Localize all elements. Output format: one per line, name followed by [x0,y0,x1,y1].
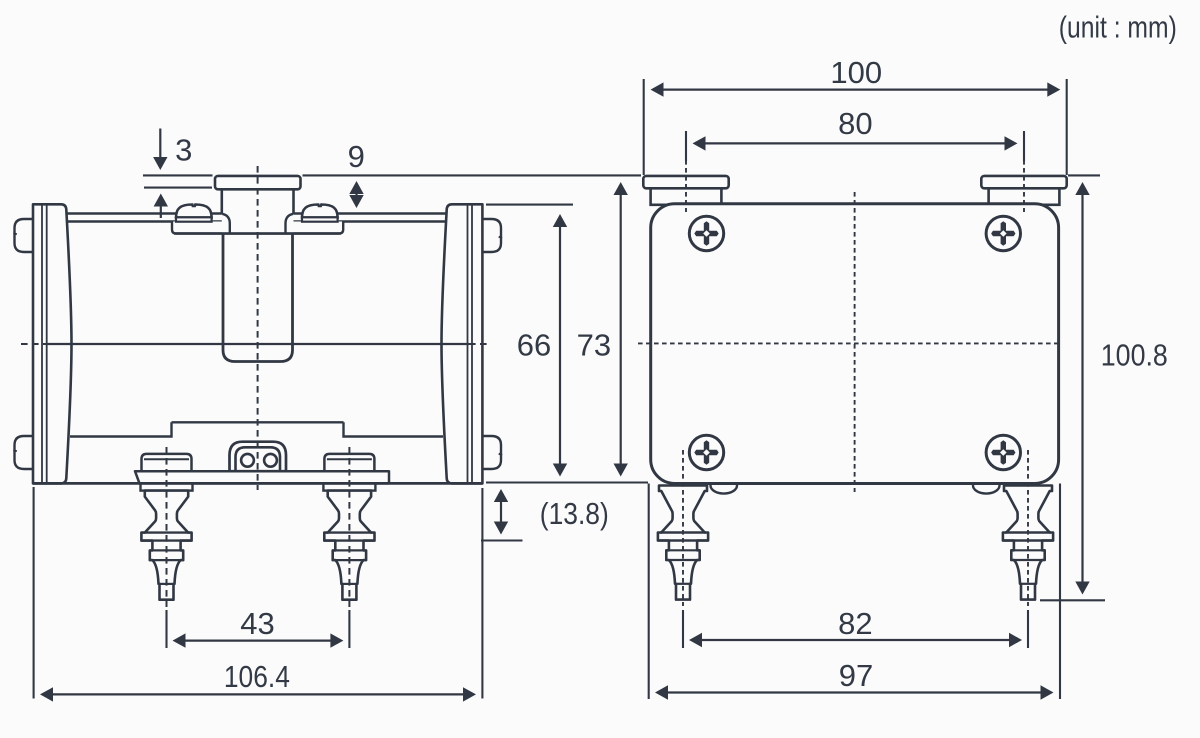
dim 100.8 line [1081,191,1083,584]
svg-text:43: 43 [240,606,274,641]
dim 106.4 witness right [481,488,483,699]
svg-text:66: 66 [517,327,551,362]
svg-text:82: 82 [838,606,872,641]
case screw bottom-right [986,435,1020,469]
deck top line [66,212,447,215]
case screw bottom-left [689,435,723,469]
left port flange (right view) [643,176,728,188]
dim 100 witness left [643,79,645,175]
left cylinder head plate [33,204,72,483]
dim 3 reference line top [143,174,213,176]
svg-text:97: 97 [839,658,873,693]
right view port centerline left [685,160,687,212]
bottom reference extension line [486,481,648,483]
right port neck (right view) [989,188,1060,205]
left view horizontal centerline dashes left [21,343,46,345]
far-side pad tab right [973,484,1000,494]
right view vertical centerline [854,192,856,492]
left view horizontal centerline dashes right [469,343,490,345]
dim 100.8 bottom reference line [1040,599,1105,601]
far-side pad tab left [711,484,738,494]
right view horizontal centerline [638,342,1061,344]
rubber foot right [324,491,374,600]
right head screw bump bottom [482,436,503,469]
left head inner line 1 [41,204,43,483]
dim 9 / 73 reference line [303,174,642,176]
right head inner line 1 [467,204,469,483]
dim 66 top reference line [486,204,573,206]
left head screw bump top [13,219,34,252]
dim 82 witness right [1027,610,1029,648]
dim 9 double arrow shaft [355,187,357,202]
dim 80 line [703,142,1006,144]
dim 3 arrow up tail [160,204,162,218]
dim 43 witness right [348,610,350,648]
port flange [215,176,301,189]
svg-text:100: 100 [830,55,882,90]
dim 97 witness right [1059,484,1061,700]
port collar fillet left [222,214,230,233]
dim 3 reference line bottom [144,187,212,189]
dim 97 line [666,691,1043,693]
left head inner line 2 [46,204,48,483]
left view vertical centerline [257,166,259,490]
deck screw dome right [302,205,338,222]
dim 13.8 bottom reference line [481,539,523,541]
left port neck (right view) [651,188,722,205]
svg-text:3: 3 [175,133,192,168]
dim 13.8 line [500,497,502,527]
deck screw dome left [176,205,212,222]
dim 73 line [620,190,622,468]
port tube inside body [223,228,293,362]
rubber foot left [141,491,191,600]
washer under plate left [141,483,193,490]
dim 80 witness right [1023,131,1025,161]
dim 66 line [559,220,561,468]
mounting bracket plate [135,471,389,483]
body seam line [46,343,469,345]
svg-text:(13.8): (13.8) [540,496,609,531]
dim 80 witness left [685,131,687,161]
right view rubber foot right [1003,486,1053,600]
dim 100 witness right [1066,79,1068,175]
dim 43 line [183,639,333,641]
body bottom line [33,482,482,485]
deck bottom line [66,220,447,223]
dim 100.8 top reference line [1068,174,1100,176]
pump body (bottom view) [651,204,1059,484]
right view port centerline right [1023,160,1025,212]
right head screw bump top [482,219,503,252]
right head inner line 2 [471,204,473,483]
right cylinder head plate [442,204,483,483]
dim 43 witness left [165,610,167,648]
connector boss [230,442,287,472]
dim 106.4 witness left [33,487,35,699]
washer under plate right [323,483,375,490]
port neck [222,189,294,232]
dim 82 line [700,639,1011,641]
interior bottom line right [344,422,444,436]
dim 97 witness left [648,484,650,700]
svg-text:(unit : mm): (unit : mm) [1059,10,1177,45]
port clamp bracket band [172,222,343,234]
arrowheads [153,157,167,170]
svg-text:9: 9 [348,139,365,174]
foot bolt head right [324,454,374,471]
svg-text:80: 80 [838,106,872,141]
interior bottom line center [172,421,344,423]
right view foot centerline right [1027,450,1029,606]
svg-text:73: 73 [577,327,611,362]
case screw top-left [689,216,723,250]
foot bolt head left [142,454,192,471]
port collar fillet right [286,214,294,233]
right port flange (right view) [981,176,1066,188]
dim 82 witness left [682,610,684,648]
svg-text:106.4: 106.4 [224,659,290,694]
left foot centerline right [348,447,350,607]
dim 106.4 line [51,693,465,695]
bracket bottom line over tube [174,232,341,234]
right view rubber foot left [658,486,708,600]
right view foot centerline left [682,450,684,606]
left foot centerline left [166,447,168,607]
dim 100 line [661,88,1049,90]
dim 3 arrow down shaft [159,129,161,160]
left head screw bump bottom [13,436,34,469]
interior bottom line left [70,422,172,436]
svg-text:100.8: 100.8 [1101,338,1168,373]
case screw top-right [986,216,1020,250]
